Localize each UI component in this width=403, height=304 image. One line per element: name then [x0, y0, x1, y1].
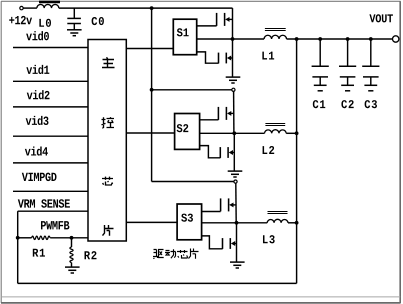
ground for C0 [67, 30, 82, 36]
wire L3 to output rail [288, 222, 297, 224]
wire 12V jumper to phase 2 [150, 88, 154, 92]
wire phase 3 drain feed [235, 183, 237, 223]
wire S2 high-side gate [200, 119, 219, 121]
ground phase 3 [230, 262, 245, 268]
inductor L0 [37, 2, 60, 27]
wire S2 low-side gate [200, 146, 221, 158]
transistor Q6 low-side MOSFET phase 3 [223, 238, 237, 249]
node feed-through terminal phase 2 [232, 88, 235, 91]
wire +12v terminal to L0 [23, 7, 37, 9]
inductor L1 [262, 29, 286, 60]
wire L1 to output rail [287, 38, 393, 40]
driver chip S1 [173, 19, 196, 55]
transistor Q1 high-side MOSFET phase 1 [217, 13, 233, 26]
wire Q6 source to ground [236, 223, 238, 262]
node vid0 input label [26, 31, 49, 40]
node VOUT output terminal [369, 14, 398, 42]
transistor Q4 low-side MOSFET phase 2 [220, 147, 234, 158]
node VRM SENSE input label [18, 199, 70, 207]
capacitor C1 [312, 37, 329, 108]
driver chip S2 [175, 114, 200, 150]
ground for C1 [314, 85, 327, 91]
node switch junction phase 1 [231, 37, 235, 41]
ground phase 2 [228, 171, 243, 177]
wire bottom return rail [18, 282, 297, 284]
wire left feedback vertical [17, 211, 19, 283]
wire controller to S2 [126, 132, 174, 134]
node junction L3 output [295, 221, 299, 225]
label 驱动芯片 driver chip caption [153, 249, 199, 259]
wire S3 high-side gate [202, 211, 221, 213]
wire VRM SENSE [18, 210, 88, 212]
node vid4 input label [25, 146, 48, 155]
wire phase 2 drain feed [233, 91, 235, 133]
driver chip S3 [177, 204, 202, 240]
node junction L2 output [295, 131, 299, 135]
wire Q4 source to ground [233, 133, 235, 171]
wire L2 to output rail [286, 132, 296, 134]
wire output right rail vertical [296, 39, 298, 283]
ground phase 1 [226, 77, 241, 83]
node +12v input terminal [9, 6, 32, 24]
wire S1 low-side gate [197, 52, 219, 63]
resistor R1 [32, 236, 50, 257]
wire controller to S3 [126, 221, 177, 223]
wire +12V rail [59, 7, 233, 9]
transistor Q3 high-side MOSFET phase 2 [218, 107, 234, 120]
wire VIMPGD [13, 190, 88, 192]
resistor R2 [70, 238, 97, 267]
wire S1 high-side gate [197, 25, 217, 27]
wire Q2 source to ground [232, 39, 234, 77]
wire vid4 [13, 162, 88, 164]
wire 12V jumper to phase 3 [152, 181, 234, 183]
inductor L2 [263, 124, 287, 155]
main controller chip U1 (主控芯片) [88, 40, 126, 242]
wire S3 low-side gate [202, 236, 223, 249]
ground for C3 [364, 85, 377, 91]
capacitor C3 [362, 37, 379, 108]
wire 12V distribution vertical [151, 8, 153, 181]
capacitor C2 [339, 37, 356, 108]
wire vid3 [13, 135, 88, 137]
node vid2 input label [27, 90, 50, 99]
node feed-through terminal phase 3 [234, 180, 237, 183]
wire S1 switch node [197, 38, 264, 40]
wire +12V rail drop to Q1 drain [232, 8, 234, 39]
wire vid1 [13, 80, 88, 82]
ground for R2 [65, 267, 80, 273]
transistor Q5 high-side MOSFET phase 3 [221, 198, 237, 211]
node junction on +12V rail [150, 6, 154, 10]
wire vid2 [13, 106, 88, 108]
wire S2 switch node [200, 132, 265, 134]
inductor L3 [263, 212, 288, 244]
transistor Q2 low-side MOSFET phase 1 [219, 53, 233, 64]
node switch junction phase 2 [232, 131, 236, 135]
node VIMPGD input label [22, 173, 57, 181]
node switch junction phase 3 [235, 221, 239, 225]
capacitor C0 [67, 8, 104, 30]
wire S3 switch node [202, 222, 268, 224]
node PWMFB label [41, 221, 69, 229]
wire controller to S1 [126, 48, 173, 50]
wire PWMFB segment with junctions [16, 236, 20, 240]
node junction output rail top [295, 37, 299, 41]
ground for C2 [341, 85, 354, 91]
wire vid0 [13, 47, 88, 49]
node vid1 input label [26, 65, 49, 74]
node vid3 input label [26, 116, 49, 125]
